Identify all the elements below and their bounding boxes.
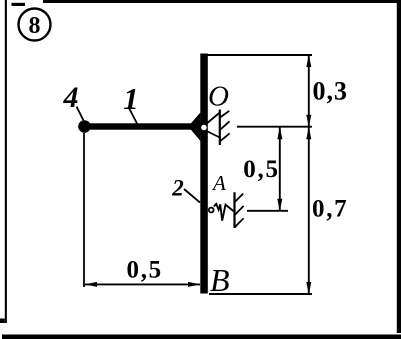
leader for 1 — [129, 108, 137, 124]
leader for 4 — [77, 107, 84, 121]
dimension extension line at B level — [209, 293, 312, 295]
svg-text:0,7: 0,7 — [312, 196, 348, 223]
pin at A — [209, 208, 214, 213]
rod OB (vertical bar) — [200, 54, 208, 294]
wall A hatches — [235, 194, 244, 228]
svg-text:4: 4 — [63, 81, 79, 114]
hinge support at O: hatches — [220, 111, 230, 142]
dimension line 0,7 — [308, 127, 310, 294]
dimension line 0,3 — [308, 55, 310, 127]
leader for 2 — [184, 189, 200, 203]
circled problem number 8 — [19, 9, 51, 41]
dimension line 0,5 vertical — [279, 127, 281, 211]
svg-text:A: A — [211, 171, 226, 195]
spring 2 — [214, 204, 234, 221]
dimension line 0,5 horizontal — [85, 283, 200, 285]
svg-text:O: O — [208, 81, 229, 113]
rod 1 (horizontal bar) — [84, 123, 201, 129]
dimension extension line at A level — [247, 210, 288, 212]
dimension extension line left (below node 4) — [83, 133, 85, 287]
svg-text:B: B — [210, 262, 230, 298]
wall at A — [233, 192, 235, 228]
svg-text:0,5: 0,5 — [127, 257, 163, 284]
dimension extension line top — [202, 54, 312, 56]
svg-text:8: 8 — [29, 13, 41, 39]
svg-text:0,5: 0,5 — [243, 156, 279, 183]
svg-text:2: 2 — [171, 175, 184, 200]
pin hole at O — [201, 125, 207, 131]
node 4 (end dot) — [78, 120, 91, 133]
svg-text:0,3: 0,3 — [313, 76, 349, 105]
hinge support at O: links — [206, 113, 220, 125]
wedge joint at O — [191, 113, 200, 142]
hinge support at O: wall — [219, 110, 221, 146]
dimension extension line at O level — [237, 126, 312, 128]
